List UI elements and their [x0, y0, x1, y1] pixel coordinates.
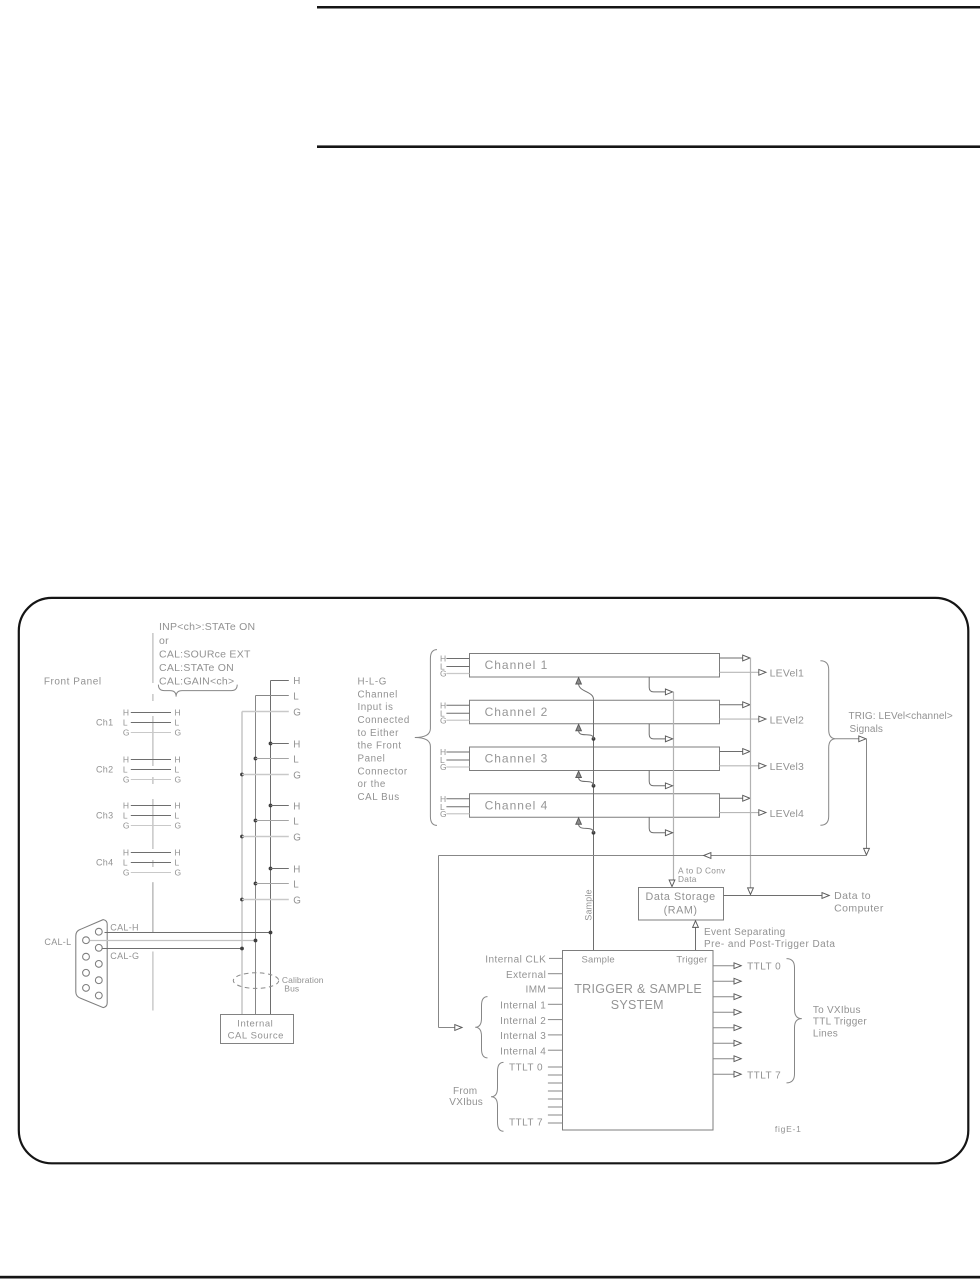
channel 2 H L G input stubs [440, 700, 470, 725]
svg-text:LEVel3: LEVel3 [770, 761, 804, 773]
svg-text:L: L [293, 879, 299, 890]
wire A-to-D branch from Channel 2 [649, 724, 672, 742]
svg-text:H: H [293, 801, 300, 812]
wire channel data collection bus [750, 658, 752, 889]
wire LEVel1 output [720, 668, 805, 680]
header rule top [317, 6, 980, 9]
svg-text:From: From [453, 1086, 477, 1097]
wire TTLT output 4 [713, 1025, 741, 1031]
svg-text:Channel 1: Channel 1 [485, 658, 549, 672]
svg-text:to Either: to Either [358, 728, 400, 739]
svg-text:Signals: Signals [850, 724, 884, 735]
svg-text:Ch2: Ch2 [96, 765, 113, 775]
wire CAL-L [90, 939, 258, 943]
svg-text:H: H [175, 755, 181, 765]
svg-text:CAL:STATe ON: CAL:STATe ON [159, 662, 234, 674]
svg-text:H-L-G: H-L-G [358, 676, 387, 687]
wire channel 4 data output [720, 795, 750, 801]
box Internal CAL Source [221, 1015, 294, 1044]
wire A-to-D branch from Channel 4 [649, 817, 672, 835]
svg-text:L: L [123, 718, 128, 728]
input Internal 4 [500, 1046, 562, 1057]
wire TTLT input 5 [548, 1106, 563, 1108]
wire TTLT output 5 [713, 1040, 741, 1046]
svg-text:L: L [123, 765, 128, 775]
wire sample branch into Channel 3 [576, 771, 596, 788]
svg-text:TTLT 7: TTLT 7 [509, 1118, 543, 1129]
svg-text:IMM: IMM [526, 984, 547, 995]
svg-text:G: G [293, 832, 301, 843]
node L bus tap group 4 [254, 879, 300, 890]
header rule bottom [317, 145, 980, 148]
node H bus tap group 2 [269, 739, 301, 750]
wire CAL-H [105, 922, 273, 934]
svg-text:G: G [175, 728, 182, 738]
svg-text:Internal 2: Internal 2 [500, 1016, 546, 1027]
svg-text:External: External [506, 970, 546, 981]
svg-text:G: G [440, 762, 447, 772]
wire data to computer [724, 893, 830, 899]
svg-text:G: G [293, 770, 301, 781]
svg-text:CAL Bus: CAL Bus [358, 792, 400, 803]
svg-text:TTL Trigger: TTL Trigger [813, 1017, 867, 1028]
svg-text:Internal CLK: Internal CLK [485, 955, 546, 966]
svg-text:figE-1: figE-1 [775, 1124, 802, 1134]
input External [506, 970, 562, 981]
node L bus top stub [256, 691, 300, 702]
node H bus tap group 4 [269, 864, 301, 875]
wire TTLT input 6 [548, 1114, 563, 1116]
label To VXIbus TTL Trigger Lines [813, 1005, 867, 1040]
wire TTLT input 2 [548, 1082, 563, 1084]
connector Ch4 [96, 848, 181, 878]
svg-text:L: L [175, 811, 180, 821]
node L bus tap group 2 [254, 754, 300, 765]
channel 4 H L G input stubs [440, 794, 470, 819]
footer rule [0, 1276, 980, 1279]
svg-text:G: G [440, 669, 447, 679]
wire LEVel3 output [720, 761, 805, 773]
wire TTLT input 7 [548, 1122, 563, 1124]
svg-text:G: G [123, 868, 130, 878]
svg-text:CAL:GAIN<ch>: CAL:GAIN<ch> [159, 675, 234, 687]
wire TTLT input 0 [548, 1066, 563, 1068]
node G bus tap group 3 [240, 832, 301, 843]
svg-text:Internal: Internal [237, 1019, 273, 1030]
wire CAL-G [102, 947, 244, 961]
svg-text:TTLT 7: TTLT 7 [747, 1071, 781, 1082]
svg-text:G: G [123, 775, 130, 785]
svg-text:G: G [175, 821, 182, 831]
svg-text:Channel 4: Channel 4 [485, 798, 549, 812]
svg-text:H: H [293, 676, 300, 687]
wire sample branch into Channel 2 [576, 724, 596, 740]
svg-text:Ch3: Ch3 [96, 811, 113, 821]
arrow collection bus into data line [748, 888, 754, 895]
arrow A-to-D into Data Storage [669, 880, 675, 887]
svg-text:Trigger: Trigger [676, 954, 707, 965]
svg-text:G: G [440, 809, 447, 819]
wire trigger feedback horizontal [439, 855, 867, 857]
label H-L-G note [358, 676, 410, 803]
svg-text:H: H [175, 708, 181, 718]
svg-text:Front Panel: Front Panel [44, 676, 102, 687]
wire TTLT output 3 [713, 1009, 741, 1015]
wire A-to-D branch from Channel 1 [649, 677, 672, 695]
input Internal 2 [500, 1016, 562, 1027]
wire TTLT output 6 [713, 1056, 741, 1062]
channel 3 H L G input stubs [440, 747, 470, 772]
brace under CAL commands [158, 685, 237, 697]
svg-text:Data to: Data to [834, 890, 871, 902]
svg-text:CAL Source: CAL Source [228, 1030, 284, 1041]
brace TRIG LEVel signals [820, 661, 836, 825]
calibration bus ellipse [233, 973, 278, 989]
svg-text:CAL-G: CAL-G [110, 951, 139, 961]
brace From VXIbus [491, 1062, 504, 1131]
wire A-to-D branch from Channel 3 [649, 771, 672, 789]
label From VXIbus [449, 1086, 483, 1108]
wire LEVel2 output [720, 714, 805, 726]
svg-text:LEVel2: LEVel2 [770, 714, 804, 726]
wire LEVel4 output [720, 808, 805, 820]
svg-text:L: L [123, 858, 128, 868]
svg-text:G: G [123, 728, 130, 738]
connector CAL D-sub [76, 920, 107, 1008]
svg-text:LEVel4: LEVel4 [770, 808, 804, 820]
svg-text:H: H [123, 848, 129, 858]
svg-text:TRIG: LEVel<channel>: TRIG: LEVel<channel> [849, 711, 953, 722]
wire TTLT input 1 [548, 1074, 563, 1076]
wire TTLT input 3 [548, 1090, 563, 1092]
figure frame rounded rect [19, 598, 969, 1163]
svg-text:or: or [159, 635, 169, 647]
svg-text:Event Separating: Event Separating [704, 927, 786, 938]
brace left of channel boxes [415, 650, 437, 826]
node G bus tap group 2 [240, 770, 301, 781]
svg-text:CAL:SOURce EXT: CAL:SOURce EXT [159, 648, 251, 660]
channel 1 H L G input stubs [440, 654, 470, 679]
svg-text:L: L [175, 858, 180, 868]
svg-text:Computer: Computer [834, 903, 884, 915]
input IMM [526, 984, 563, 995]
svg-text:L: L [293, 691, 299, 702]
input Internal 3 [500, 1031, 562, 1042]
node H bus top stub [271, 676, 301, 687]
svg-text:L: L [175, 718, 180, 728]
label Calibration Bus [282, 975, 324, 993]
label Data to Computer [834, 890, 884, 915]
wire TRIG level feedback [836, 736, 870, 855]
svg-text:G: G [175, 868, 182, 878]
node G bus top stub [242, 707, 301, 718]
svg-text:Channel 3: Channel 3 [485, 752, 549, 766]
svg-text:H: H [293, 864, 300, 875]
wire channel 1 data output [720, 655, 750, 661]
svg-text:Channel: Channel [358, 689, 398, 700]
node H bus tap group 3 [269, 801, 301, 812]
svg-text:Connector: Connector [358, 766, 408, 777]
svg-text:Sample: Sample [582, 954, 615, 965]
input Internal 1 [500, 1001, 562, 1012]
svg-text:Panel: Panel [358, 754, 386, 765]
svg-text:Ch4: Ch4 [96, 858, 113, 868]
svg-text:Internal 1: Internal 1 [500, 1001, 546, 1012]
wire channel 2 data output [720, 702, 750, 708]
node G bus tap group 4 [240, 895, 301, 906]
wire TTLT output 1 [713, 978, 741, 984]
svg-text:Bus: Bus [284, 983, 299, 993]
svg-text:L: L [123, 811, 128, 821]
svg-text:or the: or the [358, 779, 386, 790]
front panel divider segment below CAL wires [152, 952, 154, 1011]
label A to D Conv Data [678, 866, 726, 884]
wire sample branch into Channel 1 [576, 678, 594, 700]
label Event Separating Pre- and Post-Trigger Data [704, 927, 835, 950]
svg-text:Data Storage: Data Storage [645, 891, 715, 903]
input Internal CLK [485, 955, 562, 966]
wire channel 3 data output [720, 749, 750, 755]
svg-text:H: H [123, 755, 129, 765]
svg-text:SYSTEM: SYSTEM [611, 998, 664, 1012]
connector Ch1 [96, 708, 181, 738]
svg-text:Channel 2: Channel 2 [485, 705, 549, 719]
label INP<ch>:STATe ON command block [159, 621, 255, 687]
wire trigger feedback vertical [438, 856, 440, 1028]
wire A-to-D data vertical [673, 692, 675, 880]
svg-text:Internal 4: Internal 4 [500, 1046, 546, 1057]
svg-text:TTLT 0: TTLT 0 [747, 962, 781, 973]
svg-text:(RAM): (RAM) [664, 904, 698, 916]
svg-text:H: H [123, 708, 129, 718]
channel box Channel 1 [470, 654, 720, 678]
wire L bus vertical [255, 696, 257, 1015]
svg-text:L: L [293, 816, 299, 827]
svg-text:Ch1: Ch1 [96, 718, 113, 728]
svg-text:CAL-L: CAL-L [44, 937, 71, 947]
svg-text:Sample: Sample [584, 889, 594, 920]
svg-text:L: L [175, 765, 180, 775]
svg-text:Internal 3: Internal 3 [500, 1031, 546, 1042]
wire sample distribution vertical [593, 699, 595, 950]
brace To VXIbus [787, 959, 802, 1083]
node L bus tap group 3 [254, 816, 300, 827]
svg-text:Connected: Connected [358, 715, 410, 726]
svg-text:H: H [175, 848, 181, 858]
wire arrow into internal brace [439, 1025, 463, 1031]
svg-text:VXIbus: VXIbus [449, 1097, 483, 1108]
wire H bus vertical [270, 681, 272, 1015]
svg-text:G: G [293, 707, 301, 718]
svg-text:G: G [123, 821, 130, 831]
front panel divider lower segment [152, 883, 154, 932]
svg-text:Data: Data [678, 874, 697, 884]
svg-text:To VXIbus: To VXIbus [813, 1005, 861, 1016]
svg-text:G: G [293, 895, 301, 906]
wire TTLT output 7 [713, 1071, 741, 1077]
box Data Storage (RAM) [639, 888, 724, 921]
connector Ch3 [96, 801, 181, 831]
channel box Channel 2 [470, 700, 720, 724]
connector Ch2 [96, 755, 181, 785]
svg-text:H: H [175, 801, 181, 811]
svg-text:Input is: Input is [358, 702, 394, 713]
wire trigger to data storage [693, 921, 699, 951]
wire G bus vertical [241, 712, 243, 1015]
svg-text:G: G [175, 775, 182, 785]
brace internal trigger inputs [475, 997, 487, 1058]
svg-text:H: H [123, 801, 129, 811]
svg-text:G: G [440, 715, 447, 725]
svg-text:TTLT 0: TTLT 0 [509, 1063, 543, 1074]
svg-text:Lines: Lines [813, 1029, 838, 1040]
svg-text:H: H [293, 739, 300, 750]
svg-text:LEVel1: LEVel1 [770, 668, 804, 680]
svg-text:Pre- and Post-Trigger Data: Pre- and Post-Trigger Data [704, 939, 835, 950]
front panel divider dashed line [152, 633, 154, 883]
wire TTLT output 2 [713, 994, 741, 1000]
wire TTLT output 0 [713, 963, 741, 969]
label TRIG:LEVel<channel> Signals [849, 711, 953, 735]
svg-text:CAL-H: CAL-H [110, 922, 139, 932]
box TRIGGER & SAMPLE SYSTEM [563, 951, 714, 1131]
channel box Channel 3 [470, 747, 720, 771]
wire sample branch into Channel 4 [576, 818, 596, 835]
svg-text:INP<ch>:STATe ON: INP<ch>:STATe ON [159, 621, 255, 633]
svg-text:TRIGGER & SAMPLE: TRIGGER & SAMPLE [574, 982, 702, 996]
channel box Channel 4 [470, 794, 720, 818]
svg-text:L: L [293, 754, 299, 765]
wire TTLT input 4 [548, 1098, 563, 1100]
svg-text:the Front: the Front [358, 741, 402, 752]
